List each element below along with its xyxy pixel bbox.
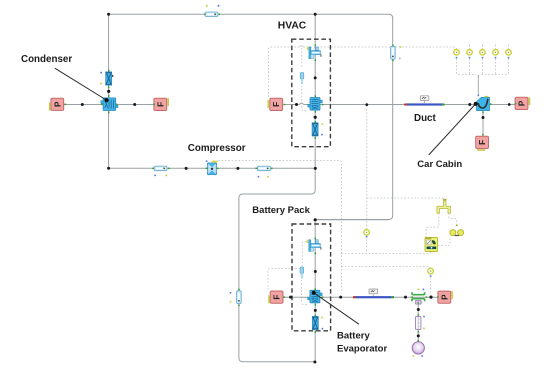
svg-text:F: F <box>478 140 487 145</box>
svg-text:HVAC: HVAC <box>278 20 307 31</box>
svg-text:F: F <box>156 102 165 107</box>
svg-text:Car Cabin: Car Cabin <box>417 159 462 170</box>
svg-text:P: P <box>53 101 62 107</box>
svg-text:F: F <box>272 102 281 107</box>
svg-text:P: P <box>440 294 449 300</box>
svg-text:Battery Pack: Battery Pack <box>252 205 310 216</box>
svg-text:Compressor: Compressor <box>188 143 246 154</box>
svg-text:F: F <box>273 295 282 300</box>
svg-text:Duct: Duct <box>414 113 437 124</box>
svg-text:Evaporator: Evaporator <box>337 343 387 354</box>
svg-text:Battery: Battery <box>337 331 370 342</box>
svg-text:P: P <box>518 100 527 106</box>
svg-text:Condenser: Condenser <box>21 54 72 65</box>
